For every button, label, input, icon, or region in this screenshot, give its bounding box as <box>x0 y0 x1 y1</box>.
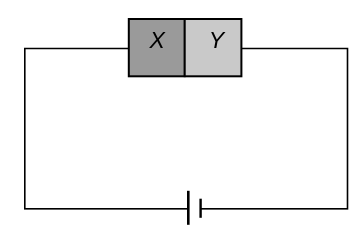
cell short plate (negative) <box>199 199 201 218</box>
svg-text:X: X <box>149 27 167 53</box>
wire left: from component X around left side to cell positive plate <box>25 49 189 209</box>
resistor block X <box>129 19 185 76</box>
svg-text:Y: Y <box>209 27 226 53</box>
resistor block Y <box>185 19 242 76</box>
wire right: from component Y around right side to cell negative plate <box>201 49 348 209</box>
cell long plate (positive) <box>187 191 190 225</box>
